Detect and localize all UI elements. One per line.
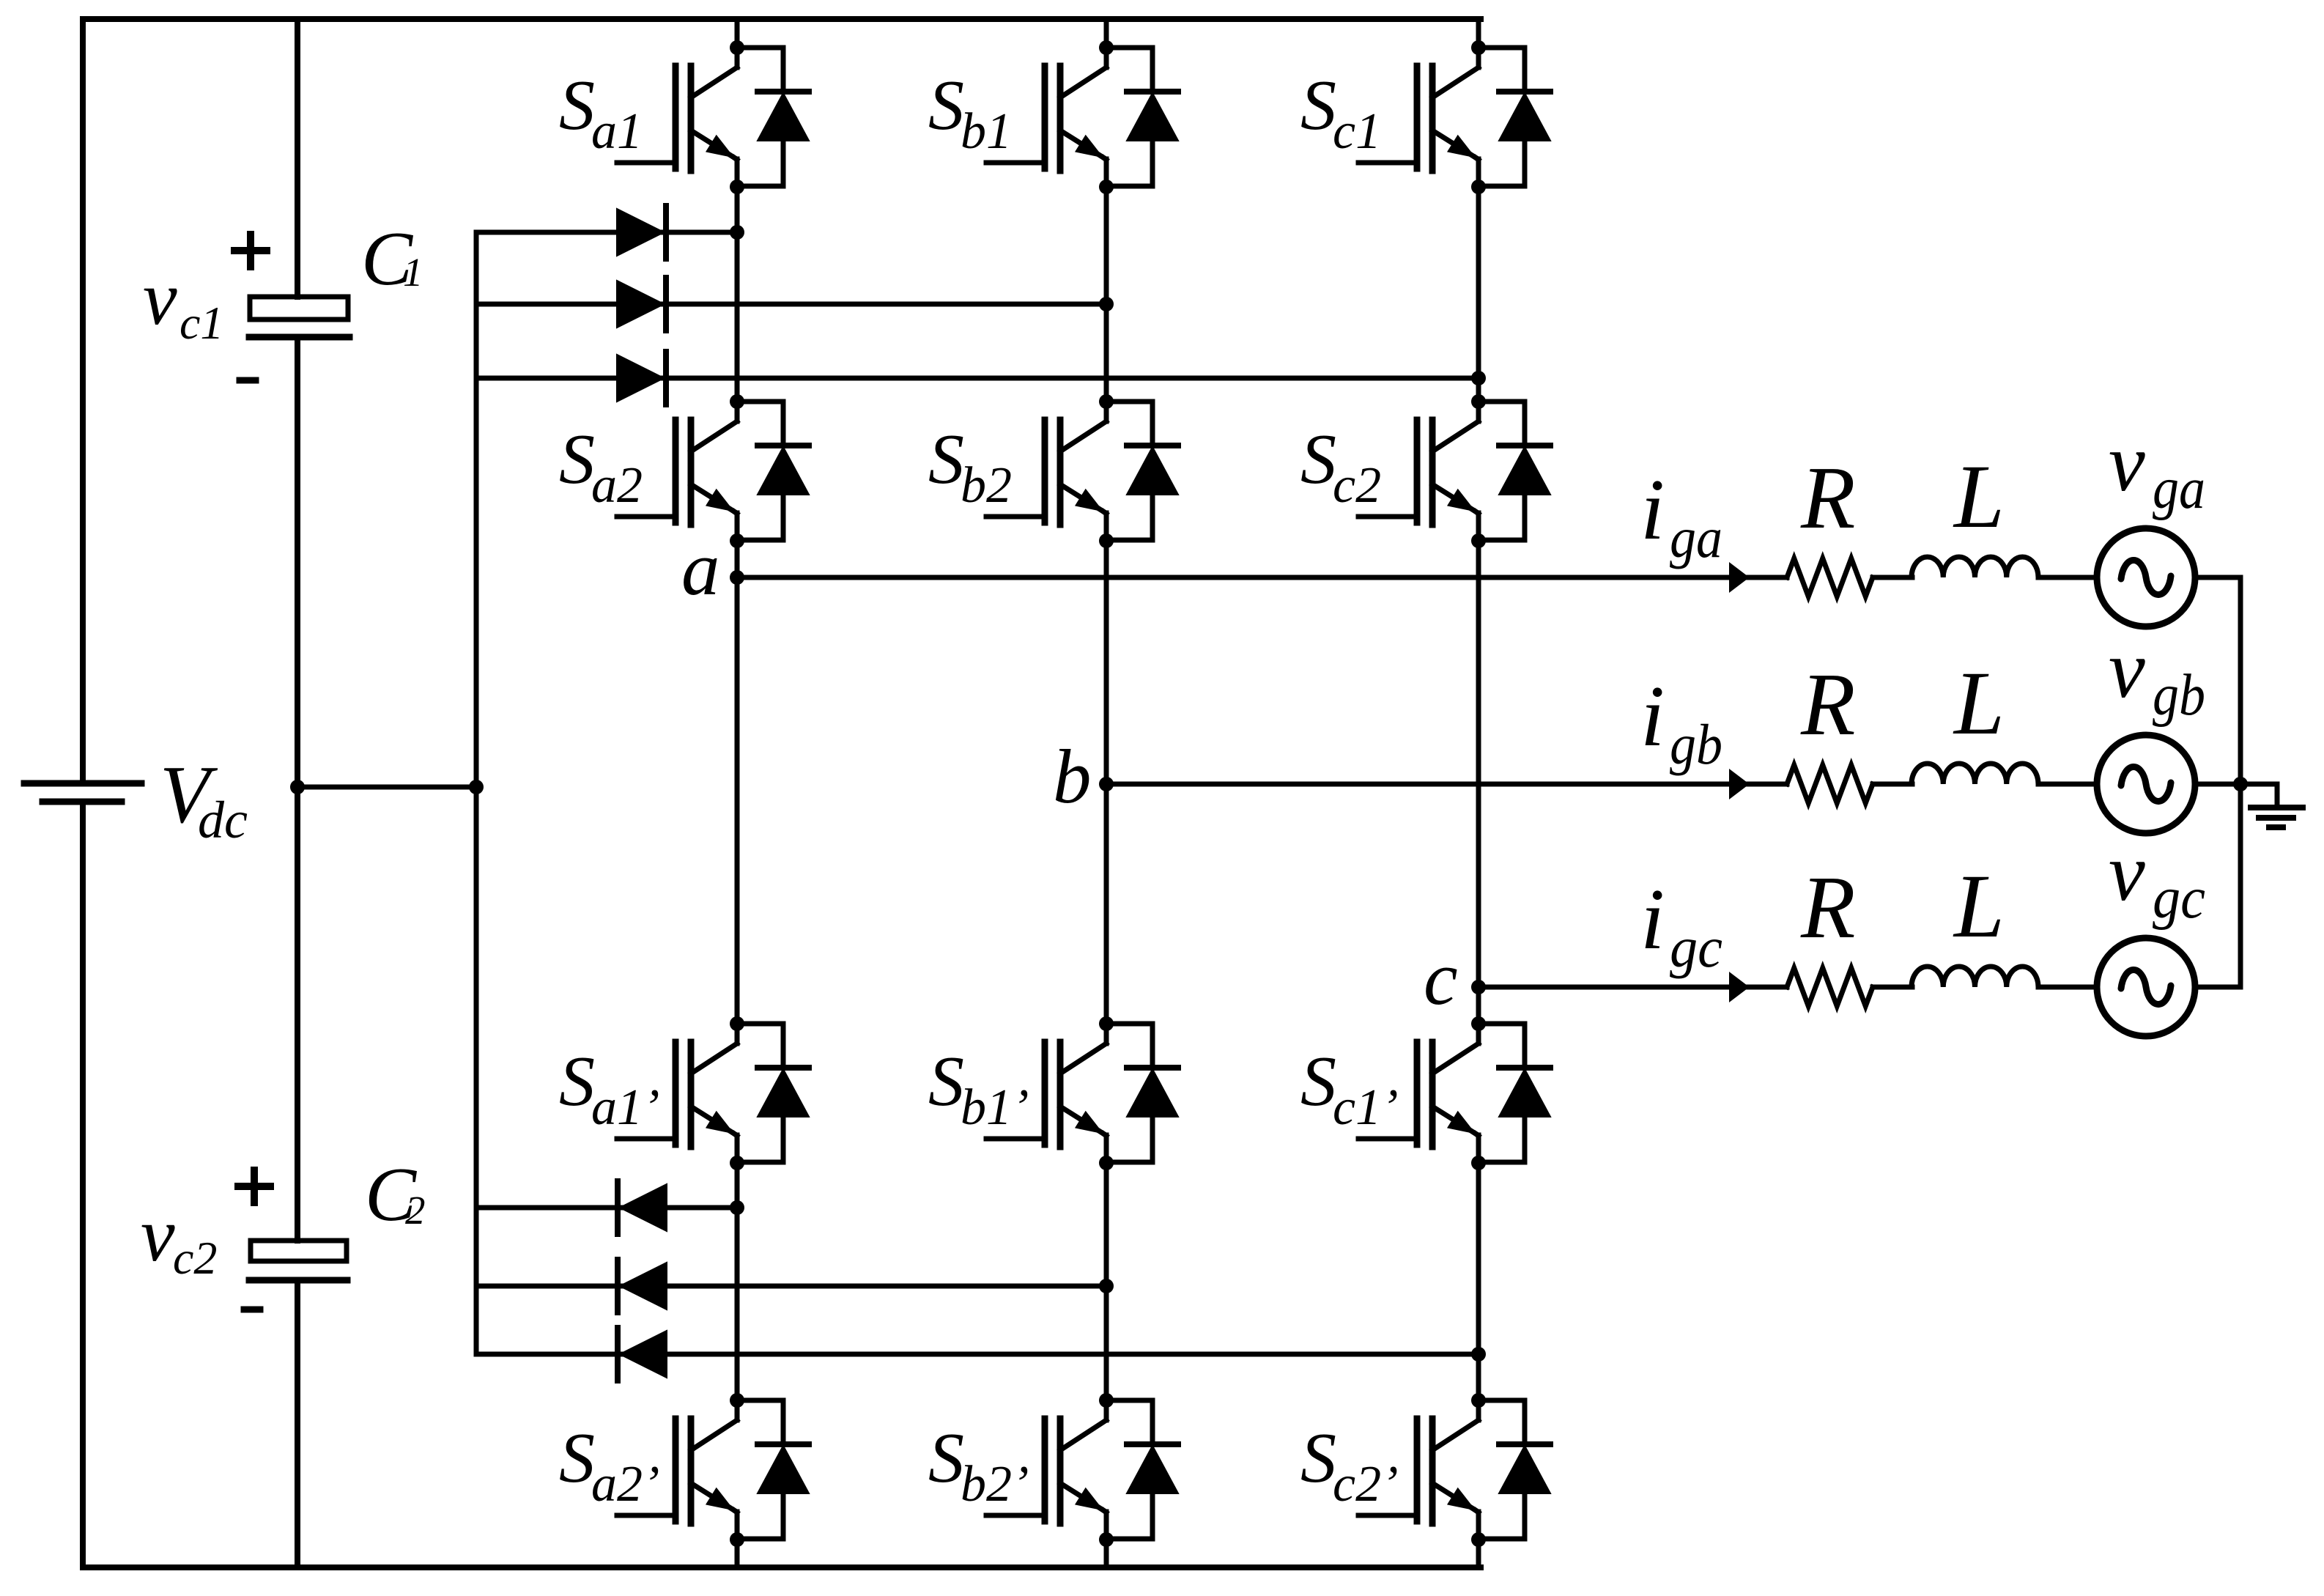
svg-text:v: v — [143, 255, 177, 341]
wire phase leg b — [1104, 19, 1109, 1567]
clamp diode Db2 (bottom, to phase b) — [476, 1260, 1106, 1312]
svg-text:v: v — [2109, 418, 2145, 509]
IGBT Sb2’ with freewheel diode — [986, 1400, 1178, 1539]
svg-text:gb: gb — [2153, 663, 2205, 728]
svg-text:S: S — [559, 1042, 595, 1121]
node a label — [681, 525, 720, 611]
IGBT Sa2’ with freewheel diode — [617, 1400, 809, 1539]
svg-text:gc: gc — [1670, 915, 1722, 979]
node junctions leg a — [730, 40, 744, 1547]
inductor L phase a — [1912, 557, 2038, 577]
svg-text:i: i — [1640, 871, 1665, 967]
svg-text:c1’: c1’ — [1333, 1079, 1398, 1136]
svg-text:S: S — [1300, 420, 1336, 499]
node neutral junction — [2233, 777, 2248, 791]
svg-text:S: S — [559, 420, 595, 499]
label L phase a — [1953, 446, 2005, 547]
label igc — [1640, 871, 1722, 979]
wire capacitor leg top — [295, 19, 300, 297]
svg-text:a1’: a1’ — [591, 1079, 659, 1136]
IGBT Sa2 with freewheel diode — [617, 402, 809, 540]
IGBT Sc2 with freewheel diode — [1358, 402, 1550, 540]
svg-text:L: L — [1953, 856, 2005, 956]
IGBT Sb1’ with freewheel diode — [986, 1024, 1178, 1162]
label Sb1’ — [928, 1042, 1029, 1136]
current arrow i_gb — [1730, 770, 1748, 798]
svg-text:S: S — [1300, 66, 1336, 145]
label vc2 — [141, 1192, 217, 1284]
wire phase leg a — [735, 19, 740, 1567]
svg-text:S: S — [928, 1042, 964, 1121]
label vga — [2109, 418, 2205, 521]
svg-text:S: S — [928, 1419, 964, 1498]
wire DC midpoint — [297, 785, 476, 790]
current arrow i_gc — [1730, 973, 1748, 1001]
label vc1 — [143, 255, 223, 349]
label R phase b — [1800, 655, 1856, 754]
label Sa1 — [559, 66, 643, 160]
IGBT Sa1’ with freewheel diode — [617, 1024, 809, 1162]
label Sc2 — [1300, 420, 1381, 514]
IGBT Sb2 with freewheel diode — [986, 402, 1178, 540]
label vgc — [2109, 827, 2205, 931]
node midpoint left — [290, 780, 305, 794]
svg-text:ga: ga — [2153, 457, 2205, 521]
IGBT Sb1 with freewheel diode — [986, 48, 1178, 186]
svg-text:c2: c2 — [1333, 457, 1381, 514]
node b label — [1053, 734, 1092, 819]
svg-text:b2’: b2’ — [961, 1456, 1029, 1512]
wire left DC link upper — [80, 19, 86, 780]
clamp diode Dc1 (top, to phase c) — [476, 352, 1479, 404]
svg-text:S: S — [559, 1419, 595, 1498]
node junctions leg c — [1471, 40, 1486, 1547]
plus mark C2 — [238, 1170, 270, 1202]
svg-text:R: R — [1800, 448, 1856, 547]
svg-text:v: v — [2109, 624, 2145, 715]
battery Vdc — [24, 783, 141, 802]
capacitor C1 — [249, 297, 349, 337]
label Sc1 — [1300, 66, 1381, 160]
inductor L phase b — [1912, 764, 2038, 784]
plus mark C1 — [234, 234, 267, 267]
minus mark C1 — [240, 377, 256, 384]
svg-text:1: 1 — [403, 250, 423, 295]
label igb — [1640, 668, 1722, 776]
inductor L phase c — [1912, 967, 2038, 987]
svg-text:v: v — [2109, 827, 2145, 918]
svg-text:gb: gb — [1670, 712, 1722, 776]
svg-text:b: b — [1053, 734, 1092, 819]
label L phase b — [1953, 653, 2005, 753]
node junctions leg b — [1099, 40, 1114, 1547]
svg-text:gc: gc — [2153, 866, 2205, 931]
wire top DC rail — [83, 16, 1481, 22]
svg-text:a: a — [681, 525, 720, 611]
current arrow i_ga — [1730, 564, 1748, 591]
wire neutral bus — [2238, 577, 2243, 987]
resistor R phase a — [1787, 558, 1873, 596]
svg-text:S: S — [559, 66, 595, 145]
minus mark C2 — [244, 1307, 260, 1313]
svg-text:S: S — [1300, 1419, 1336, 1498]
svg-text:L: L — [1953, 446, 2005, 547]
node midpoint right — [469, 780, 484, 794]
svg-text:c2’: c2’ — [1333, 1456, 1398, 1512]
label L phase c — [1953, 856, 2005, 956]
svg-text:c1: c1 — [1333, 103, 1381, 160]
svg-text:b1: b1 — [961, 103, 1012, 160]
label Sa2’ — [559, 1419, 659, 1512]
svg-text:a2: a2 — [591, 457, 643, 514]
clamp diode Da1 (top, to phase a) — [476, 206, 737, 259]
clamp diode Db1 (top, to phase b) — [476, 278, 1106, 330]
svg-text:a2’: a2’ — [591, 1456, 659, 1512]
svg-text:b1’: b1’ — [961, 1079, 1029, 1136]
wire clamp bus — [474, 232, 479, 1354]
svg-text:c: c — [1424, 935, 1458, 1021]
svg-text:i: i — [1640, 668, 1665, 764]
label Sa1’ — [559, 1042, 659, 1136]
svg-text:dc: dc — [198, 791, 248, 849]
resistor R phase c — [1787, 968, 1873, 1006]
AC source vgc — [2097, 938, 2195, 1036]
IGBT Sc2’ with freewheel diode — [1358, 1400, 1550, 1539]
wire left DC link lower — [80, 805, 86, 1567]
wire phase leg c — [1476, 19, 1481, 1567]
capacitor C2 — [249, 1241, 347, 1280]
wire capacitor leg middle — [295, 337, 300, 1241]
label Sb2 — [928, 420, 1012, 514]
svg-text:c1: c1 — [180, 297, 223, 349]
wire phase b output — [1106, 782, 2240, 787]
svg-text:c2: c2 — [173, 1232, 217, 1284]
svg-text:2: 2 — [405, 1188, 426, 1233]
label Sb1 — [928, 66, 1012, 160]
ground — [2240, 784, 2303, 827]
IGBT Sa1 with freewheel diode — [617, 48, 809, 186]
IGBT Sc1 with freewheel diode — [1358, 48, 1550, 186]
label C2 — [365, 1151, 426, 1237]
wire capacitor leg bottom — [295, 1280, 300, 1567]
clamp diode Dc2 (bottom, to phase c) — [476, 1328, 1479, 1381]
label vgb — [2109, 624, 2205, 728]
label Sc1’ — [1300, 1042, 1398, 1136]
clamp diode Da2 (bottom, to phase a) — [476, 1181, 737, 1234]
svg-text:S: S — [1300, 1042, 1336, 1121]
svg-text:L: L — [1953, 653, 2005, 753]
label Sb2’ — [928, 1419, 1029, 1512]
svg-text:b2: b2 — [961, 457, 1012, 514]
svg-text:i: i — [1640, 461, 1665, 558]
svg-text:S: S — [928, 66, 964, 145]
AC source vga — [2097, 528, 2195, 627]
wire phase c output — [1479, 985, 2240, 990]
node c label — [1424, 935, 1458, 1021]
svg-text:a1: a1 — [591, 103, 643, 160]
label Sa2 — [559, 420, 643, 514]
svg-text:v: v — [141, 1192, 175, 1277]
wire bottom DC rail — [83, 1564, 1481, 1570]
label R phase a — [1800, 448, 1856, 547]
wire phase a output — [737, 575, 2240, 580]
label R phase c — [1800, 858, 1856, 957]
label Vdc — [160, 750, 248, 849]
svg-text:R: R — [1800, 655, 1856, 754]
label iga — [1640, 461, 1722, 569]
label Sc2’ — [1300, 1419, 1398, 1512]
IGBT Sc1’ with freewheel diode — [1358, 1024, 1550, 1162]
svg-text:ga: ga — [1670, 506, 1722, 569]
AC source vgb — [2097, 735, 2195, 833]
svg-text:R: R — [1800, 858, 1856, 957]
svg-text:S: S — [928, 420, 964, 499]
resistor R phase b — [1787, 765, 1873, 803]
label C1 — [361, 215, 423, 301]
